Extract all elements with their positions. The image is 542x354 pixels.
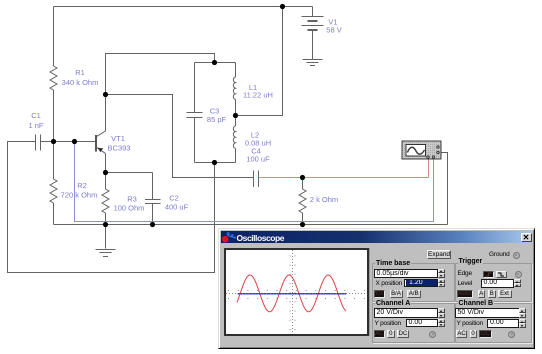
svg-text:400 uF: 400 uF [165, 203, 189, 212]
svg-text:C1: C1 [31, 111, 41, 120]
svg-text:720 k Ohm: 720 k Ohm [61, 191, 98, 200]
svg-text:R1: R1 [75, 68, 85, 77]
svg-text:100 Ohm: 100 Ohm [114, 204, 145, 213]
svg-text:85 pF: 85 pF [207, 115, 227, 124]
svg-text:2 k Ohm: 2 k Ohm [310, 195, 338, 204]
svg-text:VT1: VT1 [111, 134, 125, 143]
svg-text:C2: C2 [169, 194, 179, 203]
svg-text:11.22 uH: 11.22 uH [243, 91, 273, 100]
svg-text:58 V: 58 V [326, 26, 341, 35]
svg-text:100 uF: 100 uF [246, 155, 270, 164]
svg-text:R3: R3 [127, 195, 137, 204]
svg-text:340 k Ohm: 340 k Ohm [62, 78, 99, 87]
svg-text:1 nF: 1 nF [28, 121, 43, 130]
svg-text:R2: R2 [77, 181, 87, 190]
svg-text:BC393: BC393 [108, 144, 131, 153]
